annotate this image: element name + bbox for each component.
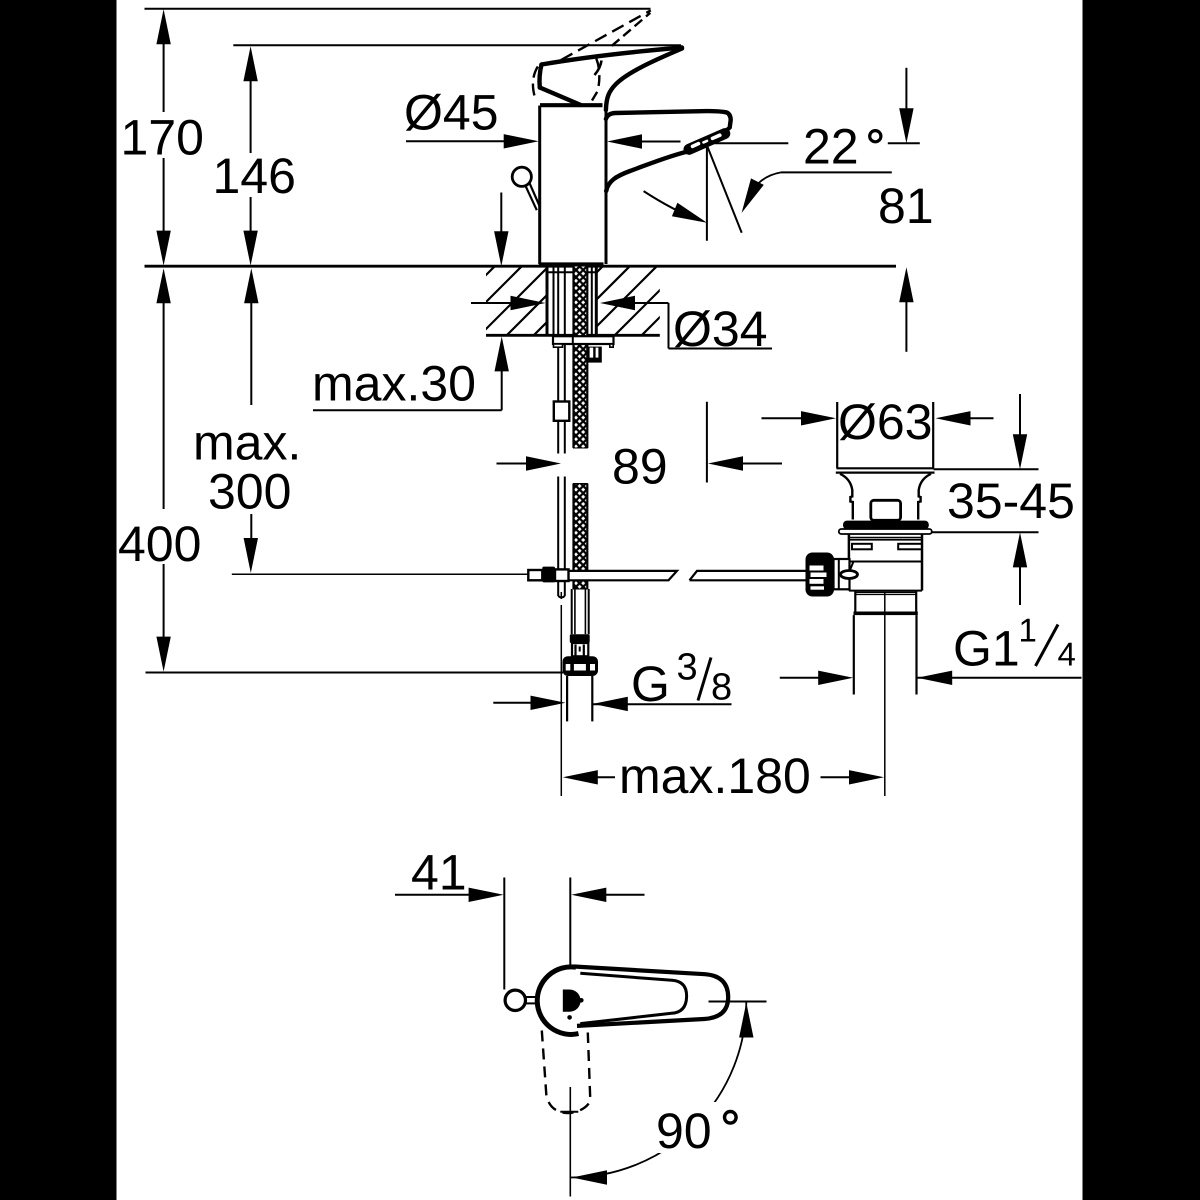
pop-up pull rod upper part [558,267,565,454]
dimension max.30 upper arrow [494,193,508,267]
dimension 170 vertical line with arrows [156,9,170,265]
clevis white box [555,569,569,581]
countertop top surface line [145,265,897,268]
hose end plain tube [572,589,589,634]
handle hub dashed right arc [592,59,599,101]
extension line for 89 [706,402,708,483]
extension line 35-45 bottom [932,531,1039,533]
hose nut collar [572,643,588,656]
top view hub black mark [563,990,581,1012]
label Ø34 with leader [669,303,773,349]
countertop bottom surface line [486,334,660,337]
waste neck right profile [918,474,931,520]
dimension 41 left arrow [395,888,504,902]
shank outer wall left [546,266,549,335]
dimension max.180 left arrow [563,770,615,784]
label max.30 with underline [313,366,502,411]
top view pull knob circle [505,990,525,1010]
left black bar [0,0,117,1200]
right black bar [1083,0,1200,1200]
waste overflow slot right [898,544,922,550]
pop-up pull knob circle [512,167,531,186]
top view knob connector [526,997,537,1003]
extension line below pull rod [560,592,562,796]
shank inner line right [591,267,593,335]
waste body bottom edge [849,590,922,592]
dimension G1 1/4 left arrow [780,671,853,685]
handle hub lower-left chin [540,88,581,105]
aerator level line left of 22 label [708,142,788,144]
label 146 [216,158,293,193]
waste body joint line [849,561,922,563]
dimension G1 1/4 right arrow [917,671,1081,685]
extension line 41 right / handle centerline upper [569,878,571,965]
reference line: 400 bottom level [146,672,564,674]
waste rubber seal [843,521,929,530]
dimension 81 upper arrow [899,68,913,144]
label G1 1/4 [956,619,1075,666]
dimension Ø45 left arrow [406,134,539,148]
dimension 89 right arrow [708,456,782,470]
top view dashed rotated handle [542,1031,591,1114]
top view lever outline [574,967,728,1026]
waste neck left profile [840,474,853,520]
dimension G3/8 left arrow [493,696,565,710]
spout nose lower tick [724,129,729,132]
dimension Ø63 left arrow [762,411,837,425]
label max.180 [622,758,808,793]
swivel arc arrow [644,191,707,223]
handle hub dashed left arc [533,67,538,99]
top view center tick [560,1111,578,1113]
flange left tab [554,344,563,347]
top view handle hub thick arc [537,967,578,1035]
label 81 [880,188,931,223]
second inlet stub [587,347,602,363]
dimension Ø63 right arrow [936,411,994,425]
waste flange [836,468,935,472]
shank inner top edge [549,271,596,273]
arc 90 degrees with arrows [570,1002,753,1185]
label 90 degrees [652,1102,742,1153]
lever rod right segment [690,571,807,580]
dimension Ø34 left arrow [471,296,546,310]
dimension Ø34 right arrow [600,296,669,310]
label Ø45 [406,94,497,131]
top view dot below [567,1015,572,1020]
top view dot right [579,998,584,1003]
waste upper cylinder [837,402,933,468]
leader from 22 label to stream [742,172,892,213]
hose nut [570,634,590,643]
faucet body left edge [538,106,541,265]
dimension Ø45 right arrow [607,134,681,148]
pop-up pull knob stem [525,183,540,210]
clevis outer box [528,570,542,580]
water stream 22 degree line [708,147,742,233]
dimension 41 right arrow [571,888,644,902]
label 300 [210,474,290,509]
flange right tab [610,344,613,347]
reference line: top of body/handle hub (146 level) [233,44,681,46]
dimension 146 vertical line with arrows [243,46,257,265]
reference line 90 degrees horizontal [709,1001,767,1003]
label max. [196,433,296,460]
waste washer [839,529,932,534]
ball rod collar [834,559,850,589]
waste lift knob [871,500,901,520]
faucet body top seam under handle [540,103,603,107]
ball joint [841,562,858,579]
mounting flange [553,336,614,344]
top view lever inner line [580,973,686,1023]
handle hub left edge [539,65,541,88]
label 170 [124,120,202,155]
waste centerline [884,592,886,796]
handle top edge [542,48,683,65]
dimension 81 lower arrow [899,267,913,352]
dimension 400 vertical line with arrows [156,268,170,671]
extension line 41 left [503,878,505,990]
clevis black block [542,567,555,583]
dimension 35-45 upper arrow [1013,394,1027,469]
vertical reference line at aerator [706,147,708,241]
label G3/8 [634,653,731,702]
reference line: top of handle (170 level) [145,8,651,10]
waste lower collar [855,591,916,612]
braided hose pattern definition [0,0,1,1]
waste body [849,534,922,591]
waste tailpipe [854,615,917,694]
countertop hatching [420,260,771,341]
compression olive [563,656,599,676]
label 89 [614,449,665,484]
waste collar bottom thick edge [854,612,918,616]
braided hose upper segment [574,266,588,448]
handle raised position dashed line B [612,13,651,46]
label 35-45 [949,483,1073,518]
dimension max.30 lower arrow [495,336,509,410]
extension line 35-45 top [934,468,1039,470]
knurled nut [806,553,835,597]
handle raised neck solid curve [595,61,602,76]
faucet base on countertop [539,262,604,267]
dimension 89 left arrow [497,456,562,470]
spout top edge and nose [606,111,731,127]
spout underside curve [606,152,688,192]
clamp fitting on pull rod [554,402,570,421]
waste overflow slot left [852,544,872,550]
braided hose lower segment [574,484,588,590]
aerator band [689,134,725,150]
label 22 degrees [806,129,881,164]
dimension G3/8 right arrow with underline [593,697,732,711]
dimension max.180 right arrow [821,770,885,784]
dimension 81 extension tick at aerator level [888,142,920,144]
label 41 [412,855,464,889]
pop-up pull rod lower part [558,477,565,598]
faucet body right edge [605,108,608,264]
shank inner line left [553,267,555,335]
dimension 35-45 lower arrow [1013,532,1027,605]
label 400 [119,526,199,561]
top view centerline lower [569,1087,571,1197]
reference line: max.300 bottom level to lever [232,573,529,575]
lever rod left segment [569,571,678,580]
shank outer wall right [595,266,598,335]
label Ø63 [840,403,931,440]
handle underside and neck curve [606,49,682,111]
connection pipe G3/8 [567,676,592,721]
handle raised position dashed line A [561,10,651,60]
dimension max.300 vertical line with arrows [244,268,259,573]
waste body groove [849,538,922,540]
